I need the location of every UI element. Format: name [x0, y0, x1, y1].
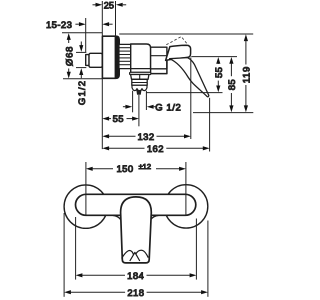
outlet upper nut — [131, 75, 149, 80]
dimension 119 vertical (total height) — [119, 34, 253, 113]
svg-text:184: 184 — [127, 271, 144, 282]
svg-text:85: 85 — [227, 79, 238, 90]
wall union nut G1/2 — [89, 53, 102, 67]
extension line wall face — [101, 78, 103, 149]
svg-text:150: 150 — [116, 164, 133, 175]
escutcheon (side view) — [102, 36, 119, 78]
svg-text:G 1/2: G 1/2 — [155, 102, 181, 113]
dimension 218 (overall width) — [64, 213, 208, 299]
cartridge ring — [151, 47, 167, 69]
lever handle closed (side view) — [166, 45, 191, 60]
dimension 55 vertical (lever to outlet) — [147, 57, 225, 93]
fillet right of handle — [151, 215, 159, 220]
svg-text:218: 218 — [127, 288, 144, 299]
dimension diameter 68 (escutcheon) — [62, 33, 102, 79]
dimension G1/2 shower outlet — [123, 91, 182, 114]
dimension 15-23 (wall depth range) — [46, 18, 113, 52]
outlet tip — [137, 91, 141, 95]
dimension G1/2 wall connection — [76, 42, 88, 106]
lever underside ornament arcs — [122, 250, 149, 261]
dimension 162 (wall to lever tip) — [102, 98, 209, 155]
svg-text:162: 162 — [147, 144, 164, 155]
svg-text:55: 55 — [214, 67, 225, 78]
lever grip (side view, angled down) — [170, 58, 209, 97]
svg-text:Ø68: Ø68 — [64, 46, 75, 66]
svg-text:119: 119 — [242, 66, 253, 83]
lever raised position (phantom outline) — [166, 37, 188, 46]
svg-text:G1/2: G1/2 — [77, 80, 88, 105]
dimension 25 (escutcheon depth) — [93, 0, 127, 36]
svg-text:55: 55 — [113, 114, 124, 125]
svg-text:25: 25 — [104, 0, 114, 10]
lever handle (front view) — [121, 197, 152, 263]
dimension 184 (body width) — [76, 217, 197, 282]
body front corner under lever — [147, 58, 167, 74]
fillet left of handle — [113, 215, 121, 220]
dimension 150 +/-12 (connection centers) — [86, 162, 186, 215]
mixer body (side view) — [131, 44, 151, 73]
outlet mid section — [132, 79, 147, 85]
dimension 132 (wall to handle front) — [102, 58, 191, 143]
escutcheon rim (dark band) — [115, 37, 118, 78]
mixer body bar (front view) — [76, 194, 196, 215]
svg-text:±12: ±12 — [139, 162, 151, 171]
hose nut with scalloped edge — [132, 85, 147, 90]
outlet flange — [130, 72, 151, 74]
right escutcheon circle — [164, 185, 207, 228]
dimension 85 vertical — [191, 57, 238, 113]
svg-text:15-23: 15-23 — [46, 20, 72, 31]
svg-text:132: 132 — [137, 132, 154, 143]
wall supply pipe stub — [86, 55, 89, 66]
dimension 55 (wall to outlet axis) — [102, 95, 139, 126]
knurled union nut — [119, 44, 131, 68]
left escutcheon circle — [64, 185, 107, 228]
